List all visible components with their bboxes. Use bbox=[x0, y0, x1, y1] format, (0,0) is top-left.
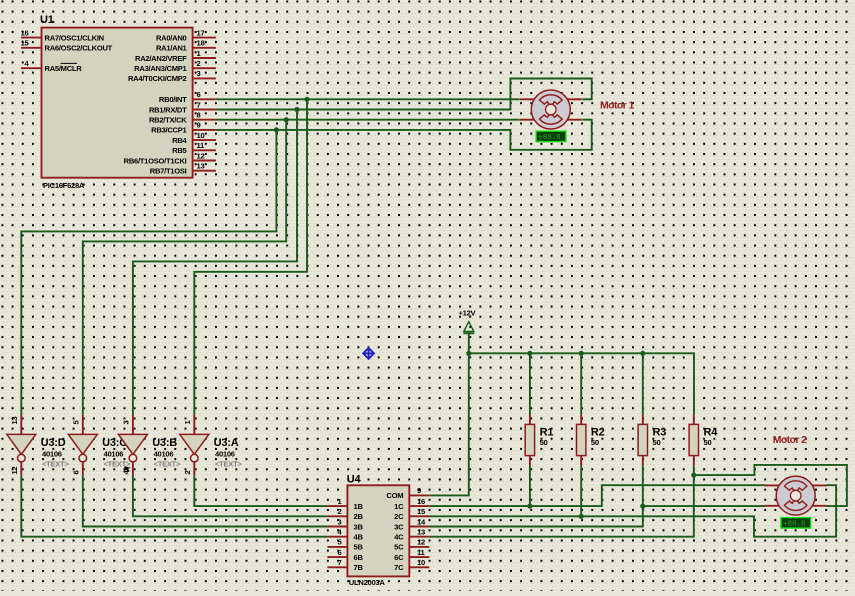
junction on net RB0 bbox=[304, 97, 309, 102]
svg-text:<TEXT>: <TEXT> bbox=[215, 459, 242, 468]
junction on net RB1 bbox=[294, 107, 299, 112]
junction net 1C / R1 bbox=[527, 504, 532, 509]
pin 2 (output) of U3:A bbox=[193, 462, 195, 475]
pin 3 (3B) of U4 bbox=[327, 526, 347, 528]
svg-text:COM: COM bbox=[386, 491, 403, 500]
svg-text:40106: 40106 bbox=[154, 449, 174, 458]
svg-text:<TEXT>: <TEXT> bbox=[154, 459, 181, 468]
svg-text:17: 17 bbox=[197, 28, 205, 37]
resistor R4 (50) bbox=[689, 415, 718, 466]
svg-text:15: 15 bbox=[417, 507, 426, 516]
svg-text:2: 2 bbox=[338, 507, 342, 516]
triangle body of U3:D bbox=[7, 434, 36, 454]
pin 15 (2C) of U4 bbox=[409, 515, 429, 517]
pin 2 (RA3/AN3/CMP1) of U1 bbox=[193, 67, 216, 69]
svg-text:RA6/OSC2/CLKOUT: RA6/OSC2/CLKOUT bbox=[45, 44, 113, 53]
svg-text:R1: R1 bbox=[540, 426, 554, 438]
svg-text:18: 18 bbox=[197, 39, 205, 48]
junction net 3C / R3 bbox=[640, 504, 645, 509]
svg-text:4C: 4C bbox=[394, 533, 404, 542]
pin 3 (RA4/T0CKI/CMP2) of U1 bbox=[193, 77, 216, 79]
svg-text:5C: 5C bbox=[394, 543, 404, 552]
motor Motor 1 (stepper) bbox=[520, 90, 582, 129]
svg-text:4B: 4B bbox=[354, 533, 364, 542]
svg-text:3B: 3B bbox=[354, 522, 364, 531]
wire U3:B output to U4 pin 2 bbox=[133, 475, 328, 516]
inverter U3:B (40106) bbox=[118, 415, 181, 475]
pin 16 (RA7/OSC1/CLKIN) of U1 bbox=[21, 37, 41, 39]
junction +12V/bus bbox=[466, 351, 471, 356]
svg-text:2: 2 bbox=[197, 59, 201, 68]
svg-text:13: 13 bbox=[417, 528, 425, 537]
wire net 2C: U4 pin15 via R2 to Motor2 right-top bbox=[429, 485, 836, 537]
svg-text:RB0/INT: RB0/INT bbox=[159, 95, 187, 104]
resistor R3 (50) bbox=[638, 353, 666, 465]
triangle body of U3:A bbox=[180, 434, 209, 454]
svg-text:40106: 40106 bbox=[104, 449, 124, 458]
svg-text:10: 10 bbox=[197, 131, 205, 140]
pin 10 (RB4) of U1 bbox=[193, 139, 216, 141]
svg-text:+12V: +12V bbox=[459, 309, 477, 318]
svg-text:RA1/AN1: RA1/AN1 bbox=[156, 44, 188, 53]
svg-text:12: 12 bbox=[197, 151, 205, 160]
pin 13 (RB7/T1OSI) of U1 bbox=[193, 170, 216, 172]
wire U3:A output to U4 pin 1 bbox=[194, 475, 327, 506]
svg-text:2: 2 bbox=[183, 471, 192, 475]
junction bus/R2 bbox=[579, 351, 584, 356]
svg-text:R3: R3 bbox=[653, 426, 667, 438]
pin 4 (4B) of U4 bbox=[327, 536, 347, 538]
svg-text:15: 15 bbox=[21, 39, 30, 48]
wire U3:D output to U4 pin 4 bbox=[21, 475, 327, 536]
pin 6 (output) of U3:C bbox=[82, 462, 84, 475]
svg-text:7B: 7B bbox=[354, 563, 364, 572]
svg-text:3: 3 bbox=[338, 517, 342, 526]
pin 4 (RA5/MCLR) of U1 bbox=[21, 67, 41, 69]
wire +12V rail down to U4 COM bbox=[429, 332, 469, 496]
svg-text:U3:B: U3:B bbox=[152, 437, 177, 449]
svg-text:14: 14 bbox=[417, 517, 426, 526]
pin 11 (6C) of U4 bbox=[409, 556, 429, 558]
svg-text:7C: 7C bbox=[394, 563, 404, 572]
pin 16 (1C) of U4 bbox=[409, 505, 429, 507]
pin 17 (RA0/AN0) of U1 bbox=[193, 37, 216, 39]
wire net 4C: R4 junction to Motor2 right-bottom bbox=[694, 465, 847, 506]
svg-text:6: 6 bbox=[197, 90, 201, 99]
svg-text:<TEXT>: <TEXT> bbox=[42, 459, 69, 468]
resistor R1 (50) bbox=[525, 353, 553, 465]
IC U4 ULN2003A bbox=[327, 474, 429, 588]
svg-text:16: 16 bbox=[417, 497, 425, 506]
wire R2 bottom to net 2C bbox=[580, 465, 582, 516]
svg-text:11: 11 bbox=[417, 548, 426, 557]
wire R1 bottom to net 1C bbox=[529, 465, 531, 506]
bubble of U3:C bbox=[79, 454, 87, 462]
junction on net RB3 bbox=[274, 127, 279, 132]
svg-text:RB6/T1OSO/T1CKI: RB6/T1OSO/T1CKI bbox=[124, 156, 187, 165]
svg-text:12: 12 bbox=[417, 538, 425, 547]
wire U3:C output to U4 pin 3 bbox=[83, 475, 328, 526]
pin 1 (input) of U3:A bbox=[193, 415, 195, 435]
svg-text:RA7/OSC1/CLKIN: RA7/OSC1/CLKIN bbox=[45, 33, 104, 42]
svg-text:RB2/TX/CK: RB2/TX/CK bbox=[149, 116, 187, 125]
svg-text:6: 6 bbox=[338, 548, 342, 557]
wire net RB1: U1 pin7 to Motor1 right-top and U3:B input bbox=[216, 79, 592, 110]
svg-text:40106: 40106 bbox=[42, 449, 62, 458]
svg-text:50: 50 bbox=[591, 438, 599, 447]
pin 1 (1B) of U4 bbox=[327, 505, 347, 507]
pin 7 (7B) of U4 bbox=[327, 566, 347, 568]
svg-text:1C: 1C bbox=[394, 502, 404, 511]
svg-text:2C: 2C bbox=[394, 512, 404, 521]
pin 5 (input) of U3:C bbox=[82, 415, 84, 435]
pin 4 (output) of U3:B bbox=[132, 462, 134, 475]
svg-text:13: 13 bbox=[197, 162, 205, 171]
svg-text:12: 12 bbox=[10, 467, 19, 475]
bubble of U3:B bbox=[129, 454, 137, 462]
pin 7 (RB1/RX/DT) of U1 bbox=[193, 109, 216, 111]
svg-text:PIC16F628A: PIC16F628A bbox=[43, 181, 85, 190]
wire R4 bottom to U4 pin 13 (net 4C) bbox=[429, 465, 694, 536]
inverter U3:A (40106) bbox=[180, 415, 243, 475]
svg-text:Motor 2: Motor 2 bbox=[773, 434, 807, 446]
svg-text:10: 10 bbox=[417, 558, 425, 567]
pin 6 (6B) of U4 bbox=[327, 556, 347, 558]
svg-text:6C: 6C bbox=[394, 553, 404, 562]
svg-text:+88.8: +88.8 bbox=[783, 521, 806, 529]
IC U1 PIC16F628A bbox=[21, 14, 216, 190]
value display of Motor 2 (+88.8) bbox=[781, 518, 811, 529]
pin 3 (input) of U3:B bbox=[132, 415, 134, 435]
wire net RB3: U1 pin9 to Motor1 right-bottom and U3:D input bbox=[216, 120, 592, 150]
svg-text:40106: 40106 bbox=[215, 449, 235, 458]
pin 1 (RA2/AN2/VREF) of U1 bbox=[193, 57, 216, 59]
wire net 3C: R3 junction to Motor2 left-bottom bbox=[643, 505, 765, 507]
svg-text:RB4: RB4 bbox=[172, 136, 187, 145]
wire R3 bottom to U4 pin 14 (net 3C) bbox=[429, 465, 643, 526]
svg-text:3: 3 bbox=[197, 69, 201, 78]
svg-text:50: 50 bbox=[704, 438, 712, 447]
junction on net RB2 bbox=[284, 117, 289, 122]
bubble of U3:D bbox=[18, 454, 26, 462]
triangle body of U3:B bbox=[118, 434, 147, 454]
bubble of U3:A bbox=[191, 454, 199, 462]
node cursor mark near U3:B pin 4 bbox=[124, 466, 131, 472]
svg-text:RA2/AN2/VREF: RA2/AN2/VREF bbox=[135, 54, 187, 63]
pin 18 (RA1/AN1) of U1 bbox=[193, 47, 216, 49]
svg-text:U3:A: U3:A bbox=[214, 437, 239, 449]
svg-text:U3:D: U3:D bbox=[41, 437, 66, 449]
svg-text:3: 3 bbox=[122, 421, 131, 425]
svg-text:RA5/MCLR: RA5/MCLR bbox=[45, 64, 83, 73]
pin 9 (COM) of U4 bbox=[409, 494, 429, 496]
svg-text:RB7/T1OSI: RB7/T1OSI bbox=[150, 167, 187, 176]
svg-text:3C: 3C bbox=[394, 522, 404, 531]
power symbol +12V bbox=[459, 309, 477, 334]
pin 12 (output) of U3:D bbox=[20, 462, 22, 475]
pin 2 (2B) of U4 bbox=[327, 515, 347, 517]
pin 13 (4C) of U4 bbox=[409, 536, 429, 538]
svg-text:50: 50 bbox=[653, 438, 661, 447]
svg-text:ULN2003A: ULN2003A bbox=[349, 578, 386, 587]
svg-text:RA3/AN3/CMP1: RA3/AN3/CMP1 bbox=[134, 64, 187, 73]
pin 13 (input) of U3:D bbox=[20, 415, 22, 435]
pin 9 (RB3/CCP1) of U1 bbox=[193, 129, 216, 131]
svg-text:6: 6 bbox=[72, 471, 81, 475]
value display of Motor 1 (+88.8) bbox=[536, 131, 566, 142]
svg-text:1B: 1B bbox=[354, 502, 364, 511]
svg-text:2B: 2B bbox=[354, 512, 364, 521]
svg-text:RA0/AN0: RA0/AN0 bbox=[156, 33, 187, 42]
pin 10 (7C) of U4 bbox=[409, 566, 429, 568]
junction net 2C / R2 bbox=[579, 514, 584, 519]
svg-text:9: 9 bbox=[417, 486, 421, 495]
svg-text:U4: U4 bbox=[347, 474, 362, 486]
node origin marker (blue) bbox=[363, 348, 374, 359]
svg-text:RB5: RB5 bbox=[172, 146, 187, 155]
wire +12V bus to resistors bbox=[469, 353, 694, 414]
svg-text:11: 11 bbox=[197, 141, 206, 150]
svg-text:RB3/CCP1: RB3/CCP1 bbox=[151, 126, 187, 135]
junction bus/R3 bbox=[640, 351, 645, 356]
svg-text:RA4/T0CKI/CMP2: RA4/T0CKI/CMP2 bbox=[128, 74, 187, 83]
svg-text:+88.8: +88.8 bbox=[538, 134, 561, 142]
pin 12 (RB6/T1OSO/T1CKI) of U1 bbox=[193, 160, 216, 162]
pin 15 (RA6/OSC2/CLKOUT) of U1 bbox=[21, 47, 41, 49]
svg-text:7: 7 bbox=[338, 558, 342, 567]
svg-text:13: 13 bbox=[10, 417, 19, 425]
svg-text:8: 8 bbox=[197, 111, 201, 120]
wire net 1C: U4 pin16 via R1 to Motor2 left-top bbox=[429, 485, 765, 506]
inverter U3:D (40106) bbox=[7, 415, 70, 475]
svg-text:6B: 6B bbox=[354, 553, 364, 562]
svg-text:Motor 1: Motor 1 bbox=[600, 100, 634, 112]
svg-text:RB1/RX/DT: RB1/RX/DT bbox=[149, 105, 187, 114]
svg-text:7: 7 bbox=[197, 100, 201, 109]
junction bus/R1 bbox=[527, 351, 532, 356]
wire net RB0: U1 pin6 to Motor1 left-top and U3:A input bbox=[216, 98, 520, 100]
pin 5 (5B) of U4 bbox=[327, 546, 347, 548]
pin 8 (RB2/TX/CK) of U1 bbox=[193, 119, 216, 121]
svg-text:U1: U1 bbox=[40, 14, 54, 26]
svg-text:5B: 5B bbox=[354, 543, 364, 552]
pin 11 (RB5) of U1 bbox=[193, 149, 216, 151]
triangle body of U3:C bbox=[68, 434, 97, 454]
junction net 4C / R4 bbox=[691, 473, 696, 478]
wire net RB2: U1 pin8 to Motor1 left-bottom and U3:C input bbox=[216, 119, 520, 121]
pin 6 (RB0/INT) of U1 bbox=[193, 98, 216, 100]
pin 12 (5C) of U4 bbox=[409, 546, 429, 548]
svg-text:50: 50 bbox=[540, 438, 548, 447]
svg-text:R2: R2 bbox=[591, 426, 605, 438]
svg-text:16: 16 bbox=[21, 28, 29, 37]
motor Motor 2 (stepper) bbox=[765, 476, 827, 515]
inverter U3:C (40106) bbox=[68, 415, 131, 475]
resistor R2 (50) bbox=[577, 353, 605, 465]
svg-text:R4: R4 bbox=[704, 426, 719, 438]
svg-text:9: 9 bbox=[197, 121, 201, 130]
pin 14 (3C) of U4 bbox=[409, 526, 429, 528]
